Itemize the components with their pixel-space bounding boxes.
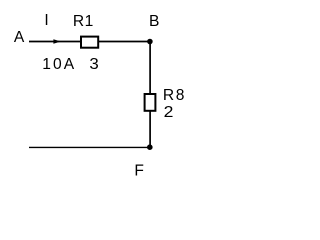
node F junction dot xyxy=(147,144,153,150)
resistor R1 xyxy=(81,37,98,48)
svg-text:R1: R1 xyxy=(73,13,94,30)
bottom wire (node F to left terminal) xyxy=(29,146,150,148)
resistor R8 xyxy=(145,94,156,111)
wire node B down to R8 xyxy=(149,42,151,94)
svg-text:A: A xyxy=(14,29,25,46)
wire R8 down to node F xyxy=(149,111,151,147)
svg-text:B: B xyxy=(149,13,159,30)
wire A to R1 (top horizontal, node A to node B) xyxy=(29,41,81,43)
svg-text:2: 2 xyxy=(164,104,174,121)
svg-text:3: 3 xyxy=(89,56,98,73)
svg-text:F: F xyxy=(134,163,144,180)
node B junction dot xyxy=(147,39,153,45)
wire R1 to node B xyxy=(99,41,150,43)
svg-text:R8: R8 xyxy=(163,87,186,104)
current arrow I xyxy=(53,39,60,43)
svg-text:10A: 10A xyxy=(42,56,76,73)
svg-text:I: I xyxy=(44,12,48,29)
